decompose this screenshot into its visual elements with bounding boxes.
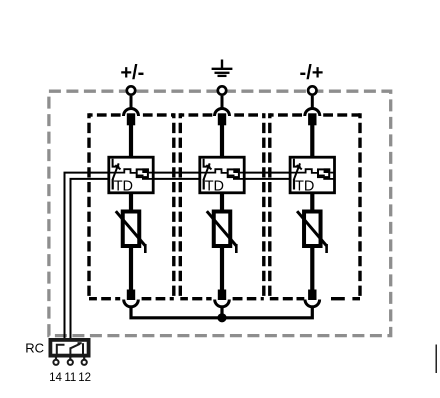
svg-text:+/-: +/- [120, 62, 144, 84]
svg-text:11: 11 [64, 372, 76, 384]
svg-text:12: 12 [78, 372, 91, 384]
svg-text:-/+: -/+ [300, 62, 324, 84]
svg-text:14: 14 [49, 372, 62, 384]
svg-text:RC: RC [25, 340, 44, 355]
